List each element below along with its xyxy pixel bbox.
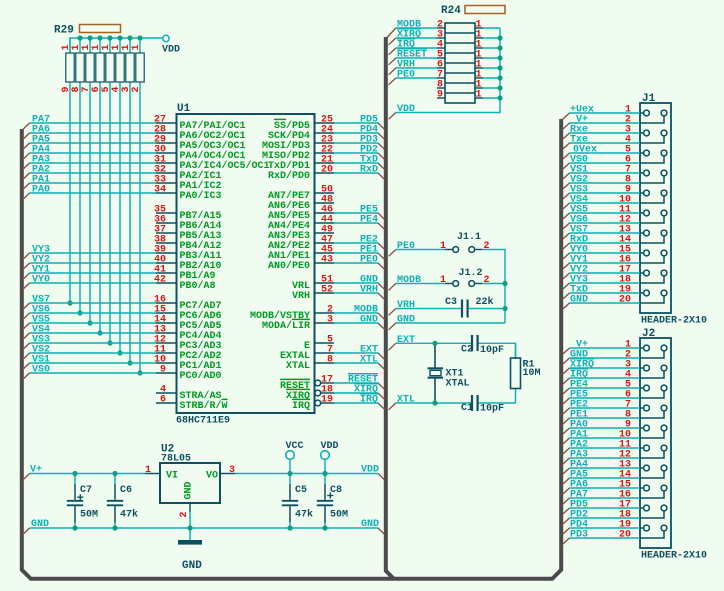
J2 pin 14 wire net PA5 <box>570 477 641 479</box>
bus main loop (left / bottom / right) <box>22 119 561 579</box>
wire net MODB to middle bus <box>334 312 378 314</box>
capacitor C2 <box>471 335 473 351</box>
capacitor C5 <box>289 474 291 485</box>
jumper J1.2 <box>445 283 453 285</box>
U1 pin 52 (VRH) right <box>314 292 334 294</box>
svg-text:VY0: VY0 <box>32 275 50 286</box>
J2 pin 11 wire net PA2 <box>570 447 641 449</box>
wire net PD2 to middle bus <box>334 152 378 154</box>
net XTL wire from bus <box>396 402 435 404</box>
capacitor C6 <box>114 474 116 485</box>
svg-text:RxD: RxD <box>360 165 378 176</box>
svg-text:GND: GND <box>360 315 378 326</box>
svg-text:RxD/PD0: RxD/PD0 <box>268 170 310 182</box>
U1 pin 29 (PA5/OC3/OC1) left <box>156 142 176 144</box>
U1 pin 33 (PA1/IC2) left <box>156 182 176 184</box>
wire net VS2 left column <box>30 352 157 354</box>
svg-text:VCC: VCC <box>286 441 304 452</box>
svg-text:20: 20 <box>321 165 333 176</box>
J2 pin 8 wire net PE1 <box>570 417 641 419</box>
svg-text:34: 34 <box>154 185 166 196</box>
J1 pin 5 wire net 0Vex <box>570 152 641 154</box>
svg-text:C6: C6 <box>120 485 132 496</box>
svg-text:9: 9 <box>437 90 443 101</box>
svg-text:1: 1 <box>475 90 481 101</box>
R24 value placeholder <box>465 6 505 14</box>
svg-text:GND: GND <box>361 519 379 530</box>
J1 pin 13 wire net VS7 <box>570 232 641 234</box>
jumper J1.1 <box>445 249 453 251</box>
regulator U2 78L05 <box>145 473 160 475</box>
svg-text:50M: 50M <box>80 510 98 521</box>
wire C1 to R1 bottom <box>479 402 516 404</box>
U1 pin 17 (RESET) right <box>315 380 321 386</box>
J2 pin 9 wire net PA0 <box>570 427 641 429</box>
wire net GND to middle bus <box>334 282 378 284</box>
J2 pin 19 wire net PD4 <box>570 527 641 529</box>
R24 pin 7 wire/label <box>437 77 445 79</box>
svg-text:22k: 22k <box>476 296 494 308</box>
net EXT wire from bus <box>396 342 435 344</box>
wire net VS0 left column <box>30 372 157 374</box>
svg-text:PC0/AD0: PC0/AD0 <box>180 370 222 382</box>
R24 pin 1 side row y=98 <box>475 97 483 99</box>
R24 pin 1 side row y=88 <box>475 87 483 89</box>
svg-text:8: 8 <box>327 355 333 366</box>
U1 pin 12 (PC3/AD3) left <box>156 342 176 344</box>
U1 pin 21 (TxD/PD1) right <box>314 162 334 164</box>
R24 pin 1 side row y=78 <box>475 77 483 79</box>
wire net PE4 to middle bus <box>334 222 378 224</box>
middle bus rippers (right side) <box>387 28 396 38</box>
J2 pin 2 wire net GND <box>570 357 641 359</box>
svg-text:6: 6 <box>160 395 166 406</box>
wire C3 to GND vertical <box>469 308 505 310</box>
junction dots crystal nets <box>432 341 437 346</box>
wire net VY1 left column <box>30 272 157 274</box>
svg-text:U1: U1 <box>177 103 191 115</box>
U1 pin 39 (PB3/A11) left <box>156 252 176 254</box>
U1 pin 35 (PB7/A15) left <box>156 212 176 214</box>
wire net XTL to middle bus <box>334 362 378 364</box>
svg-text:C1: C1 <box>461 403 473 414</box>
wire EXT to C2 <box>435 342 471 344</box>
J1 pin 14 wire net RxD <box>570 242 641 244</box>
wire net TxD to middle bus <box>334 162 378 164</box>
U1 pin 41 (PB1/A9) left <box>156 272 176 274</box>
svg-text:R29: R29 <box>54 25 74 37</box>
svg-text:XTAL: XTAL <box>446 379 470 390</box>
svg-text:78L05: 78L05 <box>161 454 191 465</box>
svg-text:GND: GND <box>397 315 415 326</box>
wire net PD3 to middle bus <box>334 142 378 144</box>
J2 pin 1 wire net V+ <box>570 347 641 349</box>
J2 pin 4 wire net IRQ <box>570 377 641 379</box>
U1 pin 47 (AN2/PE2) right <box>314 242 334 244</box>
wire net VY3 left column <box>30 252 157 254</box>
svg-text:GND: GND <box>31 519 49 530</box>
wire net VS7 left column <box>30 302 157 304</box>
J1 pin 19 wire net TxD <box>570 292 641 294</box>
wire net XIRQ to middle bus <box>334 392 378 394</box>
svg-text:HEADER-2X10: HEADER-2X10 <box>641 551 707 562</box>
U1 pin 4 (STRA/AS) left <box>156 392 176 394</box>
J2 pin 17 wire net PD5 <box>570 507 641 509</box>
middle bus rippers (left side) <box>378 123 385 130</box>
J1 pin 18 wire net VY3 <box>570 282 641 284</box>
U1 pin 46 (AN5/PE5) right <box>314 212 334 214</box>
U1 pin 2 (MODB/VSTBY) right <box>314 312 334 314</box>
svg-text:1: 1 <box>440 275 446 286</box>
wire J1.2 pin2 to GND vertical <box>482 283 505 285</box>
junction dots R29 nets onto VS rows <box>67 300 72 305</box>
wire net PA6 left column <box>30 132 157 134</box>
svg-text:J1.1: J1.1 <box>457 232 481 243</box>
svg-text:10pF: 10pF <box>480 404 504 415</box>
svg-text:C8: C8 <box>330 485 342 496</box>
net MODB to jumper J1.2 <box>396 283 445 285</box>
R24 pin 8 wire/label <box>437 87 445 89</box>
net VRH wire to capacitor C3 <box>396 308 461 310</box>
power pin VCC <box>286 451 295 460</box>
U1 pin 43 (AN0/PE0) right <box>314 262 334 264</box>
svg-text:PA0: PA0 <box>32 185 50 196</box>
R24 pin 1 side row y=28 <box>475 27 483 29</box>
svg-text:VDD: VDD <box>162 45 180 56</box>
svg-text:PE4: PE4 <box>360 215 378 226</box>
svg-text:VRH: VRH <box>360 285 378 296</box>
wire J1.1 pin2 to GND net corner <box>482 250 505 284</box>
svg-text:47k: 47k <box>295 509 313 521</box>
J1 pin 1 wire net +Uex <box>570 112 641 114</box>
U2 pin 2 to ground <box>189 503 191 512</box>
J1 pin 9 wire net VS3 <box>570 192 641 194</box>
svg-text:VI: VI <box>166 471 178 482</box>
wire net PD5 to middle bus <box>334 122 378 124</box>
R24 pin 9 wire/label <box>437 97 445 99</box>
svg-text:PE0: PE0 <box>360 255 378 266</box>
svg-text:10pF: 10pF <box>480 345 504 356</box>
svg-text:VO: VO <box>206 471 218 482</box>
R24 pin 1 side row y=48 <box>475 47 483 49</box>
J2 pin 20 wire net PD3 <box>570 537 641 539</box>
U1 pin 14 (PC5/AD5) left <box>156 322 176 324</box>
resistor network R29 common rail wire <box>70 38 163 53</box>
op IC U1 body <box>177 114 315 413</box>
svg-text:VDD: VDD <box>321 441 339 452</box>
svg-text:EXT: EXT <box>397 335 415 346</box>
R24 pin 1 side row y=38 <box>475 37 483 39</box>
wire net VS3 left column <box>30 342 157 344</box>
svg-text:3: 3 <box>327 315 333 326</box>
wire net VY2 left column <box>30 262 157 264</box>
right bus rippers J1 <box>562 113 570 120</box>
wire net VS4 left column <box>30 332 157 334</box>
svg-text:STRB/R/W: STRB/R/W <box>180 400 228 412</box>
svg-text:9: 9 <box>160 365 166 376</box>
svg-text:PE0: PE0 <box>397 70 415 81</box>
R24 pin 5 wire/label <box>437 57 445 59</box>
svg-text:PD3: PD3 <box>570 530 588 541</box>
U1 pin 31 (PA3/IC4/OC5/OC1) left <box>156 162 176 164</box>
wire net VS6 left column <box>30 312 157 314</box>
R24 pin 6 wire/label <box>437 67 445 69</box>
svg-text:HEADER-2X10: HEADER-2X10 <box>641 316 707 327</box>
U1 pin 38 (PB4/A12) left <box>156 242 176 244</box>
U1 pin 48 (AN6/PE6) right <box>314 202 334 204</box>
svg-text:20: 20 <box>619 530 631 541</box>
R24 common net vertical to VDD <box>396 28 500 113</box>
svg-text:50M: 50M <box>330 510 348 521</box>
svg-text:MODA/LIR: MODA/LIR <box>262 320 310 332</box>
power pin VDD circle at R29 <box>163 35 169 41</box>
J1 pin 2 wire net V+ <box>570 122 641 124</box>
wire net PA5 left column <box>30 142 157 144</box>
svg-text:47k: 47k <box>120 509 138 521</box>
crystal XT1 <box>434 343 436 368</box>
wire net RxD to middle bus <box>334 172 378 174</box>
svg-text:J1.2: J1.2 <box>459 268 483 279</box>
svg-text:3: 3 <box>229 465 235 476</box>
U1 pin 5 (E) right <box>314 342 334 344</box>
U1 pin 18 (XIRQ) right <box>315 390 321 396</box>
wire net V+ rail <box>30 473 146 475</box>
svg-text:42: 42 <box>154 275 166 286</box>
bus middle vertical <box>386 37 394 579</box>
R24 pin 2 wire/label <box>437 27 445 29</box>
power pin VDD <box>321 451 330 460</box>
J2 pin 7 wire net PE2 <box>570 407 641 409</box>
U1 pin 7 (EXTAL) right <box>314 352 334 354</box>
J1 pin 11 wire net VS5 <box>570 212 641 214</box>
U1 pin 8 (XTAL) right <box>314 362 334 364</box>
wire net VS5 left column <box>30 322 157 324</box>
U1 pin 25 (SS/PD5) right <box>314 122 334 124</box>
J2 pin 3 wire net XIRQ <box>570 367 641 369</box>
wire net PE0 to middle bus <box>334 262 378 264</box>
svg-text:IRQ: IRQ <box>292 401 310 412</box>
wire net IRQ to middle bus <box>334 402 378 404</box>
U1 pin 3 (MODA/LIR) right <box>314 322 334 324</box>
R29 junction dots on common rail <box>77 35 82 40</box>
wire net RESET to middle bus <box>334 382 378 384</box>
J2 pin 16 wire net PA7 <box>570 497 641 499</box>
wire net PE2 to middle bus <box>334 242 378 244</box>
svg-text:GND: GND <box>570 295 588 306</box>
J2 pin 6 wire net PE5 <box>570 397 641 399</box>
J2 pin 13 wire net PA4 <box>570 467 641 469</box>
svg-text:IRQ: IRQ <box>360 395 378 406</box>
capacitor C3 <box>461 300 463 318</box>
U1 pin 36 (PB6/A14) left <box>156 222 176 224</box>
U1 pin 49 (AN3/PE3) right <box>314 232 334 234</box>
U1 pin 10 (PC1/AD1) left <box>156 362 176 364</box>
svg-text:GND: GND <box>184 481 195 499</box>
U1 pin 9 (PC0/AD0) left <box>156 372 176 374</box>
J1 pin 17 wire net VY2 <box>570 272 641 274</box>
J1 pin 12 wire net VS6 <box>570 222 641 224</box>
wire net GND rail <box>30 527 379 529</box>
U1 pin 23 (MOSI/PD3) right <box>314 142 334 144</box>
R24 cell dividers <box>445 32 475 34</box>
connector J1 body <box>640 103 671 313</box>
U1 pin 6 (STRB/R/W) left <box>156 402 176 404</box>
svg-text:2: 2 <box>484 241 490 252</box>
svg-text:1: 1 <box>145 465 151 476</box>
U1 pin 44 (AN4/PE4) right <box>314 222 334 224</box>
svg-text:2: 2 <box>131 86 142 92</box>
wire net VS1 left column <box>30 362 157 364</box>
svg-text:20: 20 <box>619 295 631 306</box>
U1 pin 45 (AN1/PE1) right <box>314 252 334 254</box>
U1 pin 20 (RxD/PD0) right <box>314 172 334 174</box>
svg-text:VRH: VRH <box>397 300 415 311</box>
wire net PE1 to middle bus <box>334 252 378 254</box>
wire net PD4 to middle bus <box>334 132 378 134</box>
U1 pin 22 (MISO/PD2) right <box>314 152 334 154</box>
J1 pin 16 wire net VY1 <box>570 262 641 264</box>
J1 pin 7 wire net VS1 <box>570 172 641 174</box>
J1 pin 8 wire net VS2 <box>570 182 641 184</box>
wire net PA7 left column <box>30 122 157 124</box>
J1 pin 3 wire net Rxe <box>570 132 641 134</box>
svg-text:V+: V+ <box>30 465 42 476</box>
U1 pin 16 (PC7/AD7) left <box>156 302 176 304</box>
U1 pin 42 (PB0/A8) left <box>156 282 176 284</box>
J2 pin 5 wire net PE4 <box>570 387 641 389</box>
right bus rippers J2 <box>562 348 570 355</box>
svg-text:C2: C2 <box>461 345 473 356</box>
U1 pin 37 (PB5/A13) left <box>156 232 176 234</box>
wire net VRH to middle bus <box>334 292 378 294</box>
wire net PA4 left column <box>30 152 157 154</box>
wire net PA0 left column <box>30 192 157 194</box>
wire C2 to R1 top <box>479 343 516 358</box>
U1 pin 11 (PC2/AD2) left <box>156 352 176 354</box>
U1 pin 30 (PA4/OC4/OC1) left <box>156 152 176 154</box>
U1 pin 32 (PA2/IC1) left <box>156 172 176 174</box>
wire net EXT to middle bus <box>334 352 378 354</box>
U1 pin 40 (PB2/A10) left <box>156 262 176 264</box>
svg-text:J1: J1 <box>642 93 656 105</box>
net PE0 to jumper J1.1 <box>396 249 445 251</box>
svg-text:2: 2 <box>179 511 190 517</box>
svg-text:C7: C7 <box>80 485 92 496</box>
connector J2 body <box>640 338 671 548</box>
svg-text:VS0: VS0 <box>32 365 50 376</box>
svg-text:PB0/A8: PB0/A8 <box>180 280 216 292</box>
svg-text:10M: 10M <box>523 368 541 379</box>
wire net GND to middle bus <box>334 322 378 324</box>
resistor R1 <box>515 343 517 403</box>
wire net PA1 left column <box>30 182 157 184</box>
J2 pin 18 wire net PD2 <box>570 517 641 519</box>
J1 pin 15 wire net VY0 <box>570 252 641 254</box>
svg-text:19: 19 <box>321 395 333 406</box>
svg-text:2: 2 <box>484 275 490 286</box>
J1 pin 10 wire net VS4 <box>570 202 641 204</box>
R29 resistor element wires down to port C nets <box>69 38 71 53</box>
svg-text:52: 52 <box>321 285 333 296</box>
U1 pin 28 (PA6/OC2/OC1) left <box>156 132 176 134</box>
R29 value placeholder <box>80 25 121 33</box>
capacitor C8 (polarized) <box>324 474 326 485</box>
U1 pin 51 (VRL) right <box>314 282 334 284</box>
U1 pin 19 (IRQ) right <box>315 400 321 406</box>
svg-text:GND: GND <box>182 560 202 572</box>
svg-text:1: 1 <box>131 44 142 50</box>
svg-text:VDD: VDD <box>397 104 415 115</box>
wire VDD rail to bus <box>235 473 378 475</box>
ground symbol GND <box>178 540 202 545</box>
J2 pin 12 wire net PA3 <box>570 457 641 459</box>
wire net VY0 left column <box>30 282 157 284</box>
R29 resistor bodies <box>66 53 74 82</box>
svg-text:C5: C5 <box>295 485 307 496</box>
R24 body <box>445 23 475 103</box>
U1 pin 24 (SCK/PD4) right <box>314 132 334 134</box>
svg-text:PE0: PE0 <box>397 241 415 252</box>
U1 pin 50 (AN7/PE7) right <box>314 192 334 194</box>
svg-text:AN0/PE0: AN0/PE0 <box>268 260 310 272</box>
svg-text:C3: C3 <box>445 297 457 308</box>
junction GND vertical <box>504 284 506 324</box>
J1 pin 4 wire net Txe <box>570 142 641 144</box>
svg-text:68HC711E9: 68HC711E9 <box>176 416 230 427</box>
svg-text:XTL: XTL <box>360 355 378 366</box>
J2 pin 10 wire net PA1 <box>570 437 641 439</box>
svg-text:MODB: MODB <box>397 275 421 286</box>
J1 pin 20 wire net GND <box>570 302 641 304</box>
J1 pin 6 wire net VS0 <box>570 162 641 164</box>
R24 pin 3 wire/label <box>437 37 445 39</box>
U1 pin 27 (PA7/PAI/OC1) left <box>156 122 176 124</box>
left bus rippers <box>22 123 30 131</box>
svg-text:43: 43 <box>321 255 333 266</box>
capacitor C1 <box>471 395 473 411</box>
svg-text:XTAL: XTAL <box>286 361 310 372</box>
svg-text:1: 1 <box>440 241 446 252</box>
svg-text:VDD: VDD <box>361 465 379 476</box>
U2 pin 3 output <box>220 473 235 475</box>
wire XTL to C1 <box>435 402 471 404</box>
wire net PA2 left column <box>30 172 157 174</box>
U1 pin 15 (PC6/AD6) left <box>156 312 176 314</box>
R24 pin 4 wire/label <box>437 47 445 49</box>
capacitor C7 (polarized) <box>74 474 76 485</box>
net GND wire right of bus <box>396 322 505 324</box>
U1 pin 34 (PA0/IC3) left <box>156 192 176 194</box>
svg-text:R24: R24 <box>441 5 461 17</box>
wire net PA3 left column <box>30 162 157 164</box>
svg-text:PA0/IC3: PA0/IC3 <box>180 190 222 202</box>
svg-text:VRH: VRH <box>292 291 310 302</box>
J2 pin 15 wire net PA6 <box>570 487 641 489</box>
R24 pin 1 side row y=68 <box>475 67 483 69</box>
svg-text:J2: J2 <box>642 328 655 340</box>
R24 pin 1 side row y=58 <box>475 57 483 59</box>
wire net PE5 to middle bus <box>334 212 378 214</box>
U1 pin 13 (PC4/AD4) left <box>156 332 176 334</box>
svg-text:XTL: XTL <box>397 395 415 406</box>
